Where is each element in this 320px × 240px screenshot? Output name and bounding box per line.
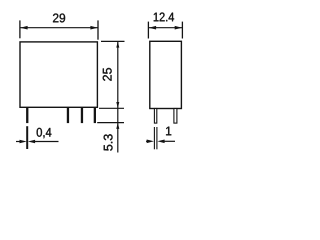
dim 25 arrow up xyxy=(116,41,119,47)
dim 0,4 line right tail xyxy=(34,141,59,143)
dim 12.4 arrow left xyxy=(149,26,156,30)
dim 0,4 line left tail xyxy=(16,141,21,143)
label 0,4 xyxy=(37,128,52,138)
pin 4 front view xyxy=(94,107,96,123)
dim 1 arrow left xyxy=(147,140,154,144)
pin right side view (hollow) xyxy=(174,109,177,124)
pin 3 front view xyxy=(81,107,83,123)
dim 12.4 extension line right xyxy=(181,22,183,39)
dim 1 extension line left (pin left edge) xyxy=(153,127,155,149)
dim 29 extension line right xyxy=(97,20,99,39)
relay body front view xyxy=(20,42,97,107)
pin 2 front view xyxy=(67,107,69,123)
dim 29 extension line left xyxy=(19,20,21,38)
dim 1 line left tail xyxy=(146,140,149,142)
label 5.3 xyxy=(104,134,113,150)
dim 29 arrow left xyxy=(20,26,27,30)
dim 0,4 arrow left xyxy=(20,140,27,144)
dim 5.3 arrow up from below xyxy=(116,123,119,129)
dim 1 line right tail xyxy=(163,140,175,142)
dim 25 / 5.3 shared arrow down xyxy=(116,102,119,108)
dim 12.4 extension line left xyxy=(147,22,149,39)
dim 29 line xyxy=(20,27,98,29)
dim 1 extension line right (pin right edge) xyxy=(156,127,158,149)
label 12.4 xyxy=(154,13,174,22)
dim 12.4 arrow right xyxy=(175,26,182,30)
dim 0,4 arrow right xyxy=(28,140,35,144)
pin left side view (hollow) xyxy=(154,109,156,124)
dim 0,4 extension line below pin 1 xyxy=(26,126,28,149)
dim 29 arrow right xyxy=(90,26,97,30)
dim 5.3 leader tail xyxy=(117,123,119,153)
dim 5.3 bottom extension line (pin tips) xyxy=(97,122,124,124)
dim 25 vertical line xyxy=(117,42,119,123)
label 29 xyxy=(53,14,65,23)
dim 1 arrow right xyxy=(157,140,164,144)
dim 12.4 line xyxy=(149,27,182,29)
pin 1 front view xyxy=(26,107,28,123)
dim 25 top extension line xyxy=(101,40,125,42)
label 1 xyxy=(166,127,171,136)
label 25 xyxy=(103,68,112,81)
dim 25/5.3 middle extension line (body bottom) xyxy=(99,107,124,109)
relay body side view xyxy=(150,41,182,108)
